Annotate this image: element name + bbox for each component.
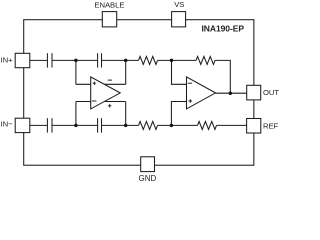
wire node G up to A2 +input	[171, 102, 186, 126]
node A junction	[74, 59, 78, 63]
A2 -input mark	[188, 82, 192, 84]
wire R2 to feedback corner	[215, 60, 230, 93]
pin IN-	[15, 118, 30, 132]
wire node E up to A1 -input	[75, 102, 77, 126]
node C junction	[170, 59, 174, 63]
chip boundary	[24, 20, 254, 166]
svg-text:IN+: IN+	[1, 55, 14, 64]
resistor R2	[196, 56, 215, 64]
svg-text:INA190-EP: INA190-EP	[202, 24, 245, 34]
wire IN- box to C3	[30, 124, 48, 126]
wire R1 to node C to R2	[158, 59, 197, 61]
wire IN+ box to C1	[30, 59, 48, 61]
A1 -input mark	[92, 100, 97, 102]
pin VS	[172, 12, 186, 27]
wire C4 to node F and R3	[102, 124, 139, 126]
wire C2 to node B and R1	[102, 59, 139, 61]
node G junction	[170, 124, 174, 128]
wire node B down to A1 -output	[125, 60, 127, 84]
A1 -output mark	[108, 79, 112, 81]
svg-text:ENABLE: ENABLE	[94, 1, 124, 10]
pin IN+	[15, 53, 30, 67]
A1 lower through line	[76, 101, 126, 103]
capacitor C3	[47, 118, 52, 132]
A1 +input mark	[93, 81, 97, 85]
resistor R4	[198, 121, 217, 129]
op-amp A1 (fully differential stage)	[91, 77, 121, 109]
wire A2 output to OUT pin	[216, 92, 247, 94]
svg-text:VS: VS	[174, 0, 184, 9]
wire node A down to A1 +input	[75, 60, 77, 84]
A2 +input mark	[189, 99, 193, 103]
wire node F up to A1 +output	[125, 102, 127, 126]
capacitor C4	[98, 118, 102, 132]
pin ENABLE	[102, 12, 116, 27]
resistor R1	[139, 56, 158, 64]
svg-text:REF: REF	[263, 122, 279, 131]
node D junction (output feedback)	[229, 91, 233, 95]
A1 +output mark	[108, 104, 112, 108]
svg-text:IN−: IN−	[1, 119, 14, 128]
node F junction	[124, 124, 128, 128]
node E junction	[74, 124, 78, 128]
wire R4 to REF pin	[217, 124, 247, 126]
svg-text:OUT: OUT	[263, 88, 279, 97]
pin OUT	[247, 85, 261, 100]
wire node C down to A2 -input	[172, 60, 187, 84]
node B junction	[124, 59, 128, 63]
op-amp A2 (output buffer stage)	[187, 77, 216, 109]
svg-text:GND: GND	[139, 174, 157, 183]
wire R3 to node G to R4	[158, 124, 198, 126]
capacitor C1	[47, 53, 52, 67]
wire C3 to node E	[52, 124, 98, 126]
A1 upper through line	[76, 83, 126, 85]
wire C1 to node A	[52, 59, 98, 61]
capacitor C2	[98, 53, 102, 67]
pin REF	[247, 119, 261, 134]
resistor R3	[139, 121, 158, 129]
pin GND	[141, 157, 155, 172]
